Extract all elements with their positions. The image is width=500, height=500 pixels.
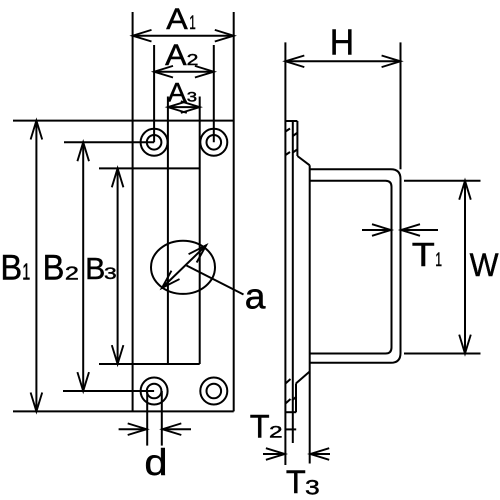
slot right edge + A3 right extension <box>199 97 201 365</box>
svg-text:B: B <box>0 248 22 287</box>
dimension line B3 <box>117 168 119 364</box>
svg-text:T: T <box>286 464 306 500</box>
screw hole bottom-left <box>141 378 168 405</box>
svg-text:a: a <box>245 276 267 317</box>
svg-text:2: 2 <box>65 263 79 283</box>
dimension line A1 <box>133 35 234 37</box>
plate right edge + A1 right extension <box>233 12 235 411</box>
svg-text:2: 2 <box>269 424 283 442</box>
plate left edge + A1 left extension <box>132 12 134 411</box>
screw hole top-left <box>141 129 168 156</box>
H right extension line <box>400 42 402 169</box>
svg-text:B: B <box>85 251 105 286</box>
step face upper <box>296 121 298 156</box>
plate top edge + B1 top extension <box>13 120 234 122</box>
box inner profile <box>310 181 392 354</box>
leader line to label a <box>187 266 244 295</box>
side view: flange left face + H extension + T3 extension <box>284 42 286 465</box>
svg-text:A: A <box>166 3 188 36</box>
plate bottom edge + B1 bottom extension <box>13 410 234 412</box>
hatch tick 5 <box>286 379 291 384</box>
W top extension line <box>404 180 481 182</box>
hatch tick 1 <box>286 129 291 132</box>
dimension line H <box>285 60 400 62</box>
svg-text:2: 2 <box>187 52 199 69</box>
diameter arrow of circle a <box>162 245 206 288</box>
hatch tick 4 <box>293 149 298 152</box>
step face lower <box>295 383 297 412</box>
hatch tick 6 <box>286 399 291 404</box>
box mounting face + T3 extension <box>309 165 311 463</box>
d left extension line <box>146 391 148 446</box>
svg-text:3: 3 <box>305 477 320 500</box>
T1 right arrow <box>401 229 438 231</box>
svg-text:T: T <box>412 236 435 273</box>
hatch tick 2 <box>293 133 297 136</box>
svg-text:3: 3 <box>187 89 198 105</box>
dimension line A3 <box>168 106 200 108</box>
svg-text:1: 1 <box>189 13 196 34</box>
screw hole top-right <box>200 129 227 156</box>
lower chamfer <box>296 372 310 384</box>
dimension line W <box>464 181 466 354</box>
svg-text:B: B <box>43 248 65 287</box>
T3 left arrow <box>263 453 285 455</box>
T2 upper tick <box>285 411 296 413</box>
W bottom extension line <box>404 353 481 355</box>
d right extension line <box>161 391 163 446</box>
svg-text:H: H <box>330 21 354 62</box>
T2 lower tick <box>285 428 296 430</box>
latch opening circle a <box>151 241 215 294</box>
dimension line B1 <box>35 121 37 412</box>
slot bottom edge + B3 bottom extension <box>99 363 200 365</box>
box outer profile <box>310 169 401 362</box>
dimension line B2 <box>82 142 84 391</box>
dimension line A2 <box>154 71 214 73</box>
svg-text:1: 1 <box>22 258 30 284</box>
T3 right arrow <box>310 453 330 455</box>
svg-text:d: d <box>144 442 167 483</box>
svg-text:3: 3 <box>104 264 117 283</box>
hatch tick 3 <box>286 152 291 155</box>
slot left edge + A3 left extension <box>167 97 169 365</box>
flange right face <box>292 121 294 443</box>
hatch tick 7 <box>292 397 297 401</box>
svg-text:1: 1 <box>435 250 442 271</box>
d left arrow <box>119 428 147 430</box>
slot top edge + B3 top extension <box>99 167 200 169</box>
svg-text:A: A <box>168 78 187 108</box>
d right arrow <box>162 428 191 430</box>
screw hole bottom-right <box>200 378 227 405</box>
hole centerline left + A2 left extension <box>153 45 155 142</box>
B2 bottom extension (lower-left hole center) <box>63 390 154 392</box>
hole centerline right + A2 right extension <box>213 45 215 142</box>
B2 top extension (upper-left hole center) <box>64 141 154 143</box>
upper chamfer <box>297 156 309 165</box>
svg-text:A: A <box>165 39 187 72</box>
svg-text:W: W <box>470 247 500 283</box>
flange top edge <box>285 120 297 122</box>
svg-text:T: T <box>250 409 270 445</box>
T1 left arrow <box>362 229 391 231</box>
